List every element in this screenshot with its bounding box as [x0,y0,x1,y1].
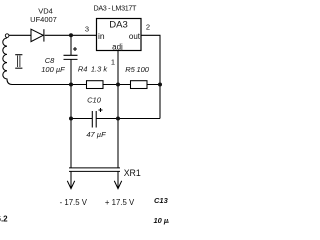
svg-text:2: 2 [146,23,150,32]
svg-text:1: 1 [111,58,115,67]
svg-text:adj: adj [112,42,123,51]
svg-text:UF4007: UF4007 [30,15,57,24]
svg-text:C13: C13 [154,196,169,205]
svg-text:XR1: XR1 [124,168,141,178]
svg-text:6.2: 6.2 [0,214,8,223]
svg-text:C8: C8 [45,56,55,65]
svg-text:10 µF: 10 µF [154,216,170,225]
svg-text:1.3 k: 1.3 k [91,64,109,73]
svg-text:DA3 - LM317T: DA3 - LM317T [94,4,137,13]
svg-text:in: in [98,31,105,41]
svg-text:R5: R5 [125,65,135,74]
svg-text:100: 100 [136,65,149,74]
svg-text:R4: R4 [78,64,88,73]
svg-text:100 µF: 100 µF [41,65,65,74]
svg-text:DA3: DA3 [109,20,127,31]
svg-text:- 17.5 V: - 17.5 V [60,198,88,207]
svg-text:47 µF: 47 µF [86,130,106,139]
svg-text:+ 17.5 V: + 17.5 V [105,198,135,207]
svg-text:C10: C10 [87,95,102,104]
svg-text:3: 3 [85,25,89,34]
svg-text:out: out [129,32,141,41]
